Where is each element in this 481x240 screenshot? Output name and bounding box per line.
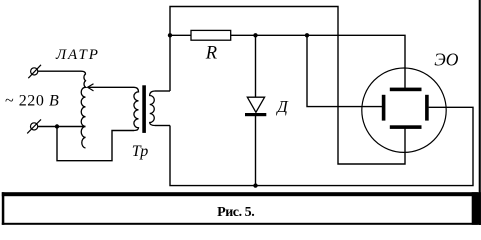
CRT top deflection plate — [390, 88, 422, 92]
svg-text:~ 220 В: ~ 220 В — [5, 93, 59, 110]
CRT left deflection plate — [382, 95, 386, 121]
svg-text:ЛАТР: ЛАТР — [55, 47, 100, 63]
wire: top loop from secondary-top vertical over to CRT bottom-plate stem — [170, 7, 405, 165]
ЛАТР tap arrow head — [88, 84, 94, 91]
diode Д triangle — [247, 97, 264, 112]
diode Д cathode bar — [245, 113, 266, 116]
page right border — [479, 0, 481, 225]
caption box top border — [2, 192, 478, 196]
CRT right deflection plate — [425, 95, 429, 121]
wire: bottom rail to right plate stem — [170, 107, 473, 185]
node: diode bottom junction — [253, 183, 257, 187]
resistor R — [191, 30, 231, 40]
svg-text:ЭО: ЭО — [434, 50, 458, 70]
svg-text:Рис. 5.: Рис. 5. — [217, 205, 254, 220]
wire: diode cathode down to bottom rail — [255, 116, 257, 186]
wire: main horizontal left segment to resistor — [170, 34, 191, 36]
caption box bottom border — [2, 223, 478, 225]
transformer Тр core — [142, 85, 146, 133]
wire: primary bottom loop to terminal-2 node — [57, 127, 134, 161]
node: diode top junction — [253, 33, 257, 37]
wire: branch to CRT left plate — [307, 35, 382, 106]
wire: transformer secondary bottom — [155, 125, 170, 127]
wire: arrow tap line to primary top — [88, 86, 134, 88]
transformer Тр primary coil — [134, 87, 139, 130]
wire: ЛАТР terminal 1 to coil top — [38, 70, 81, 72]
node: resistor left junction — [168, 33, 172, 37]
oscilloscope tube ЭО circle — [362, 68, 446, 152]
wire: diode anode from main wire — [255, 35, 257, 97]
wire: ЛАТР terminal 2 to coil tap — [38, 126, 86, 128]
ЛАТР coil (autotransformer winding) — [81, 71, 86, 148]
node: terminal-2 junction — [55, 124, 59, 128]
ЛАТР terminal 2 (circle with slash) — [30, 123, 37, 130]
transformer Тр secondary coil — [150, 91, 155, 126]
caption box right border — [472, 192, 481, 225]
svg-text:Д: Д — [275, 97, 289, 116]
CRT bottom deflection plate — [390, 125, 422, 129]
svg-text:Тр: Тр — [132, 143, 149, 160]
svg-text:R: R — [205, 44, 217, 64]
ЛАТР terminal 1 (circle with slash) — [31, 68, 38, 75]
wire: transformer secondary top to node — [155, 90, 170, 92]
caption box left border — [2, 192, 5, 225]
wire: resistor right side to CRT top-plate stem — [231, 35, 405, 89]
node: left-plate branch junction — [305, 33, 309, 37]
